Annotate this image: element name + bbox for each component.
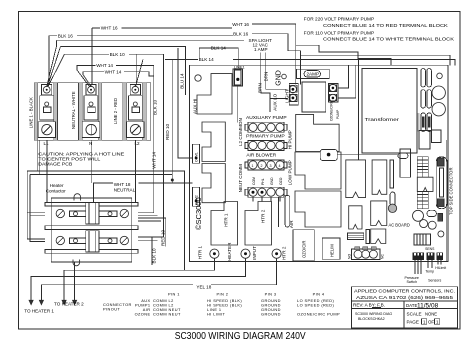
svg-text:HELIM: HELIM [330, 244, 335, 257]
svg-text:INPUT: INPUT [252, 246, 257, 260]
svg-text:NEUT COMM: NEUT COMM [238, 164, 243, 192]
svg-text:RED 10: RED 10 [165, 123, 170, 140]
svg-text:NEUTRAL: NEUTRAL [114, 187, 136, 192]
svg-text:PINOUT: PINOUT [103, 307, 120, 312]
svg-text:2AMP: 2AMP [307, 72, 320, 77]
svg-text:SENS: SENS [425, 247, 435, 251]
svg-text:PAGE: PAGE [407, 320, 419, 325]
svg-text:DAMAGE PCB: DAMAGE PCB [38, 162, 72, 167]
svg-text:BLK 16: BLK 16 [233, 31, 249, 36]
svg-text:PUMP: PUMP [336, 110, 340, 119]
svg-text:HTR 1: HTR 1 [224, 213, 229, 227]
svg-text:Transformer: Transformer [365, 117, 400, 122]
svg-text:BRN: BRN [258, 83, 263, 93]
svg-text:©SC3000: ©SC3000 [194, 197, 203, 230]
svg-text:BLK 14: BLK 14 [199, 57, 215, 62]
svg-text:BLK 14: BLK 14 [211, 45, 227, 50]
svg-text:WHT 14: WHT 14 [105, 70, 122, 75]
svg-text:3: 3 [270, 164, 272, 168]
svg-text:OF: OF [428, 320, 434, 325]
svg-text:SC3000 WIRING DIAG: SC3000 WIRING DIAG [355, 312, 392, 316]
svg-text:OZONE/CIRC PUMP: OZONE/CIRC PUMP [297, 312, 340, 317]
svg-text:GND: GND [270, 177, 274, 185]
svg-text:1 AMP: 1 AMP [254, 47, 268, 52]
svg-text:WHT 16: WHT 16 [232, 22, 249, 27]
svg-text:Sensors: Sensors [428, 278, 441, 282]
svg-text:AZUSA CA 91702 (626) 969–9: AZUSA CA 91702 (626) 969–9655 [356, 295, 454, 300]
svg-text:AUX LO: AUX LO [273, 93, 278, 110]
svg-text:HTR 2: HTR 2 [261, 209, 266, 223]
svg-text:TO HEATER 1: TO HEATER 1 [24, 309, 54, 314]
svg-text:YEL 18: YEL 18 [196, 285, 211, 290]
svg-text:LINE 2 - RED: LINE 2 - RED [113, 98, 118, 124]
svg-text:BLU 14: BLU 14 [180, 73, 185, 89]
svg-text:AIR BLOWER: AIR BLOWER [246, 152, 277, 157]
svg-text:Heater: Heater [50, 183, 64, 188]
svg-text:GND: GND [276, 70, 283, 86]
svg-text:HTR 2: HTR 2 [282, 246, 287, 260]
svg-text:LO SPEED (RED): LO SPEED (RED) [297, 303, 335, 308]
svg-text:PIN 1: PIN 1 [168, 292, 180, 297]
svg-text:2: 2 [261, 164, 263, 168]
svg-text:11/5/08: 11/5/08 [417, 303, 439, 310]
svg-text:NO: NO [348, 254, 352, 259]
svg-text:HTR 1: HTR 1 [198, 245, 203, 259]
svg-text:NONE: NONE [425, 311, 437, 316]
svg-text:TO HEATER 2: TO HEATER 2 [54, 301, 84, 306]
svg-text:SC3000 WIRING DIAGRAM 240V: SC3000 WIRING DIAGRAM 240V [175, 330, 306, 342]
svg-text:RED 10: RED 10 [161, 229, 166, 246]
svg-text:OZO/CIR: OZO/CIR [302, 241, 307, 258]
svg-text:N: N [89, 141, 92, 146]
svg-text:BLOCKSCHKA2: BLOCKSCHKA2 [358, 317, 385, 321]
svg-text:PIN 4: PIN 4 [313, 292, 325, 297]
svg-text:AC BOARD: AC BOARD [389, 223, 411, 228]
svg-text:COMM NEUT: COMM NEUT [153, 312, 181, 317]
svg-text:FOR 220 VOLT PRIMARY PUMP: FOR 220 VOLT PRIMARY PUMP [304, 16, 375, 21]
svg-text:L2 COMMON: L2 COMMON [238, 118, 243, 146]
svg-text:Contactor: Contactor [46, 189, 66, 194]
svg-text:NEUTRAL - WHITE: NEUTRAL - WHITE [71, 91, 76, 129]
svg-text:BLK 16: BLK 16 [58, 34, 74, 39]
svg-text:OZO: OZO [279, 177, 283, 185]
svg-text:WHT 14: WHT 14 [96, 63, 113, 68]
svg-text:HiLimit: HiLimit [435, 266, 446, 270]
svg-text:WHT 14: WHT 14 [152, 152, 157, 169]
svg-text:BRN: BRN [264, 72, 269, 82]
svg-text:OZONE/CIRC: OZONE/CIRC [330, 100, 334, 121]
svg-text:BLK 10: BLK 10 [153, 99, 158, 115]
svg-text:WHT 16: WHT 16 [101, 26, 118, 31]
svg-text:SCALE: SCALE [407, 312, 422, 317]
svg-text:CONNECT BLUE 14 TO WHITE TERMI: CONNECT BLUE 14 TO WHITE TERMINAL BLOCK [323, 37, 455, 42]
svg-text:FOR 110 VOLT PRIMARY PUMP: FOR 110 VOLT PRIMARY PUMP [304, 31, 375, 36]
svg-text:HI PUMP: HI PUMP [288, 130, 293, 149]
svg-text:CONNECT BLUE 14 TO RED TERMINA: CONNECT BLUE 14 TO RED TERMINAL BLOCK [323, 23, 449, 28]
svg-text:COM: COM [252, 177, 256, 185]
svg-text:L1: L1 [44, 141, 50, 146]
svg-text:DATE: DATE [406, 303, 417, 308]
svg-text:PHL: PHL [261, 178, 265, 185]
svg-text:OZONE: OZONE [135, 312, 151, 317]
svg-text:NC: NC [381, 254, 385, 259]
svg-text:AUXILIARY PUMP: AUXILIARY PUMP [246, 115, 287, 120]
svg-text:GROUND: GROUND [261, 312, 281, 317]
svg-text:LOW PUMP: LOW PUMP [288, 160, 293, 185]
svg-text:PIN 3: PIN 3 [265, 292, 277, 297]
svg-text:PRIMARY PUMP: PRIMARY PUMP [246, 134, 285, 139]
svg-text:1: 1 [252, 164, 254, 168]
svg-text:TOP SIDE CONNECTOR: TOP SIDE CONNECTOR [449, 168, 454, 215]
svg-text:REV: A BY: F.B.: REV: A BY: F.B. [353, 303, 385, 308]
svg-text:APPLIED COMPUTER CONTROLS,: APPLIED COMPUTER CONTROLS, INC. [354, 289, 455, 294]
svg-text:4: 4 [279, 164, 281, 168]
svg-text:Switch: Switch [407, 280, 418, 284]
svg-text:HI LIMIT: HI LIMIT [207, 312, 225, 317]
svg-text:BLK 10: BLK 10 [110, 52, 126, 57]
svg-text:LINE 1 - BLACK: LINE 1 - BLACK [28, 97, 33, 128]
svg-text:Temp: Temp [425, 270, 434, 274]
svg-text:PIN 2: PIN 2 [217, 292, 229, 297]
